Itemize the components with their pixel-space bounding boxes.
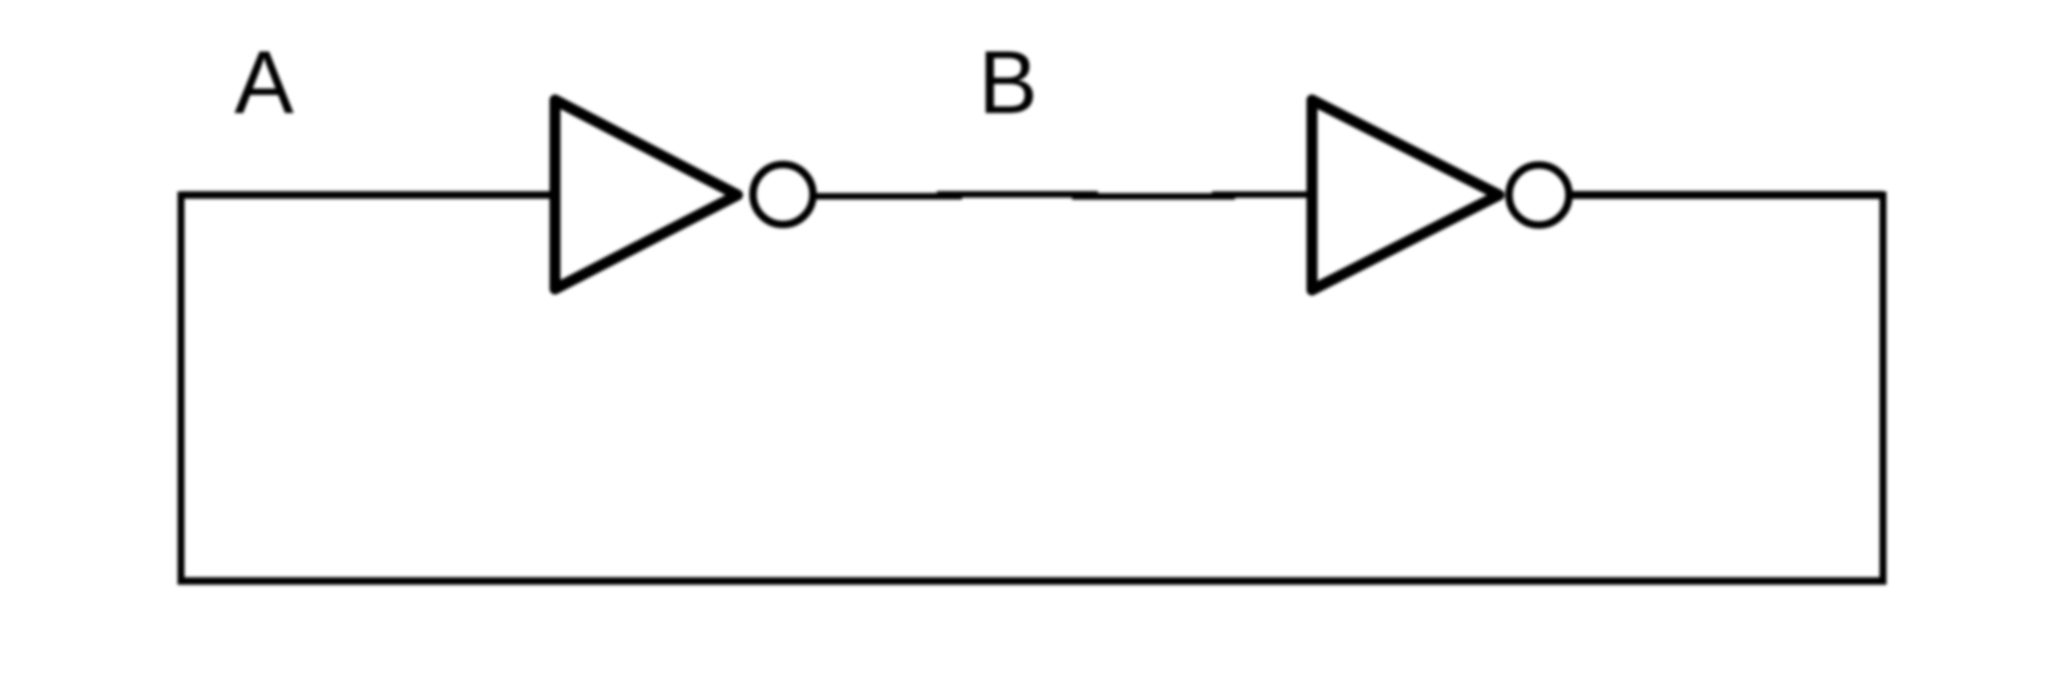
svg-text:B: B	[978, 32, 1037, 132]
node A label	[234, 32, 294, 132]
wire: node B, U1 output to U2 input (segment 3)	[1072, 193, 1235, 200]
svg-text:A: A	[234, 32, 294, 132]
wire: feedback right vertical	[1880, 192, 1887, 582]
wire: U2 output to feedback top right	[1572, 191, 1883, 199]
wire: node B, U1 output to U2 input (segment 2)	[937, 191, 1098, 198]
wire: feedback left vertical	[178, 192, 185, 585]
wire: node A, feedback to U1 input	[181, 191, 555, 199]
inverter U2	[1312, 100, 1499, 290]
inverter U1	[555, 100, 738, 289]
wire: node B, U1 output to U2 input (segment 1)	[812, 193, 962, 200]
inverter U2 output bubble	[1509, 165, 1569, 225]
wire: node B, U1 output to U2 input (segment 4)	[1212, 191, 1311, 198]
node B label	[978, 32, 1037, 132]
wire: feedback bottom	[178, 577, 1887, 585]
inverter U1 output bubble	[753, 165, 813, 225]
